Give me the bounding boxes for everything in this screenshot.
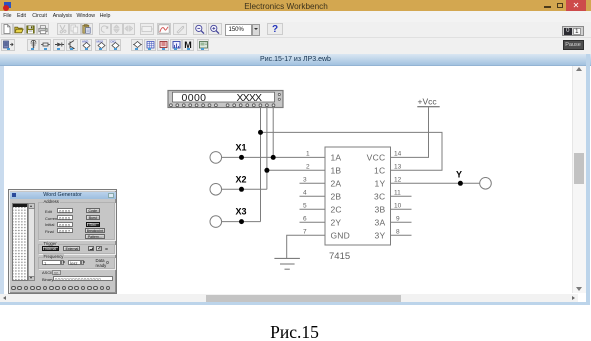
svg-text:13: 13 [394, 163, 402, 170]
svg-text:2Y: 2Y [331, 217, 342, 227]
WG title bar [10, 192, 116, 200]
svg-text:2A: 2A [331, 178, 342, 188]
svg-text:2C: 2C [331, 204, 342, 214]
display terminals group 2 [226, 104, 275, 107]
horizontal scrollbar [0, 294, 578, 302]
svg-text:3A: 3A [375, 217, 386, 227]
properties button (disabled) [173, 23, 187, 35]
transistors bin button [66, 39, 78, 51]
svg-text:5: 5 [303, 202, 307, 209]
svg-text:Y: Y [456, 170, 462, 180]
WG frequency group [38, 257, 115, 269]
wire pin 12 to Y [391, 182, 480, 184]
open button [13, 23, 25, 35]
mixed ICs bin button [95, 39, 107, 51]
svg-text:X1: X1 [236, 143, 247, 153]
wire pin 7 to ground [287, 235, 325, 258]
doc right blue border [586, 54, 590, 305]
svg-text:1B: 1B [331, 165, 342, 175]
paste button [81, 23, 93, 35]
wire +Vcc to pin 14 [391, 107, 429, 157]
pin numbers right [394, 150, 402, 235]
toolbar row 2 [0, 38, 591, 55]
pin numbers left [303, 150, 310, 235]
terminal Y [480, 178, 492, 190]
pin stub 11 [391, 195, 412, 197]
digital bin button [144, 39, 156, 51]
figure caption [0, 322, 589, 341]
svg-text:8: 8 [396, 228, 400, 235]
svg-text:1: 1 [306, 150, 310, 157]
WG address group [38, 202, 115, 241]
copy button (disabled) [69, 23, 81, 35]
terminal X3 [210, 216, 222, 228]
diodes bin button [53, 39, 65, 51]
cut button (disabled) [57, 23, 69, 35]
pin stub 9 [391, 221, 412, 223]
word generator instrument window [8, 189, 117, 294]
logic gates bin button [131, 39, 143, 51]
junction dot X3 [239, 219, 244, 224]
svg-text:3Y: 3Y [375, 230, 386, 240]
pin stub 4 [300, 195, 326, 197]
print button [37, 23, 49, 35]
analog ICs bin button [80, 39, 92, 51]
terminal X2 [210, 184, 222, 196]
display side terminals [278, 93, 280, 100]
zoom out button [193, 23, 207, 35]
svg-text:0000: 0000 [182, 92, 207, 104]
power switch [562, 26, 584, 36]
svg-text:1Y: 1Y [375, 178, 386, 188]
svg-text:7: 7 [303, 228, 307, 235]
terminal X1 [210, 152, 222, 164]
toolbar row 1 [0, 22, 591, 38]
svg-text:12: 12 [394, 176, 402, 183]
svg-text:4: 4 [303, 189, 307, 196]
flip vertical button (disabled) [111, 23, 123, 35]
op IC U1 7415 body [325, 147, 391, 245]
new button [1, 23, 13, 35]
IC pin labels left [331, 152, 351, 240]
ground symbol [274, 258, 300, 269]
+Vcc power symbol [417, 97, 439, 107]
document title bar [0, 54, 591, 66]
WG binary row [42, 277, 53, 282]
controls bin button [170, 39, 182, 51]
display terminals group 1 [170, 104, 218, 107]
pin stub 10 [391, 208, 412, 210]
wire X2 horizontal [222, 188, 267, 190]
pin stub 6 [300, 221, 326, 223]
svg-text:VCC: VCC [367, 152, 386, 162]
WG list scrollbar [28, 203, 35, 281]
svg-text:X2: X2 [236, 174, 247, 184]
junction dot wire2/pin2 [264, 168, 269, 173]
save button [25, 23, 37, 35]
svg-text:3C: 3C [374, 191, 385, 201]
wire X1 to pin 1 [222, 156, 325, 158]
junction dot X2 [239, 187, 244, 192]
WG address list [12, 203, 28, 281]
doc bottom blue border [0, 302, 590, 305]
wire X3 horizontal [222, 221, 261, 223]
junction dot X3 net top [258, 130, 263, 135]
junction dot X1 [239, 155, 244, 160]
svg-text:14: 14 [394, 150, 402, 157]
svg-text:3B: 3B [375, 204, 386, 214]
vertical scrollbar [572, 66, 586, 293]
svg-text:10: 10 [394, 202, 402, 209]
svg-text:2: 2 [306, 163, 310, 170]
svg-text:7415: 7415 [329, 251, 350, 262]
wire X3 net to pin 13 [261, 132, 443, 170]
pin stub 3 [300, 182, 326, 184]
miscellaneous bin button [182, 39, 194, 51]
sources bin button [27, 39, 39, 51]
wire display pin15 vertical [266, 107, 268, 190]
svg-text:1A: 1A [331, 152, 342, 162]
doc left border [0, 66, 4, 302]
instruments bin button [197, 39, 209, 51]
pin stub 5 [300, 208, 326, 210]
digital ICs bin button [109, 39, 121, 51]
zoom combo box [225, 24, 252, 36]
svg-text:XXXX: XXXX [237, 92, 263, 104]
WG ascii row [42, 270, 52, 275]
wire junction to pin 2 [267, 169, 325, 171]
svg-text:X3: X3 [236, 207, 247, 217]
svg-text:GND: GND [331, 230, 351, 240]
app title bar [0, 0, 591, 11]
wire display pin16 vertical [272, 107, 274, 158]
help button [267, 23, 283, 35]
indicators bin button [157, 39, 169, 51]
pin stub 8 [391, 234, 412, 236]
WG trigger group [38, 244, 115, 255]
favorites bin button [1, 39, 15, 51]
logic display U2 body [168, 91, 283, 108]
basic bin button [39, 39, 51, 51]
svg-text:11: 11 [394, 189, 401, 196]
zoom in button [208, 23, 222, 35]
subcircuit button (disabled) [140, 23, 154, 35]
document canvas [0, 66, 591, 294]
svg-text:9: 9 [396, 215, 400, 222]
pause button [563, 40, 584, 51]
svg-text:+Vcc: +Vcc [418, 97, 438, 107]
rotate button (disabled) [99, 23, 111, 35]
svg-text:3: 3 [303, 176, 307, 183]
menu bar [0, 11, 591, 22]
flip horizontal button (disabled) [123, 23, 135, 35]
WG output terminals [9, 286, 118, 294]
junction dot Y [458, 181, 463, 186]
junction dot wire3/pin1 [271, 155, 276, 160]
svg-text:2B: 2B [331, 191, 342, 201]
wire display pin14 to X3 vertical [260, 107, 262, 222]
svg-text:6: 6 [303, 215, 307, 222]
IC pin labels right [367, 152, 386, 240]
svg-text:1C: 1C [374, 165, 385, 175]
graph button [157, 23, 171, 35]
